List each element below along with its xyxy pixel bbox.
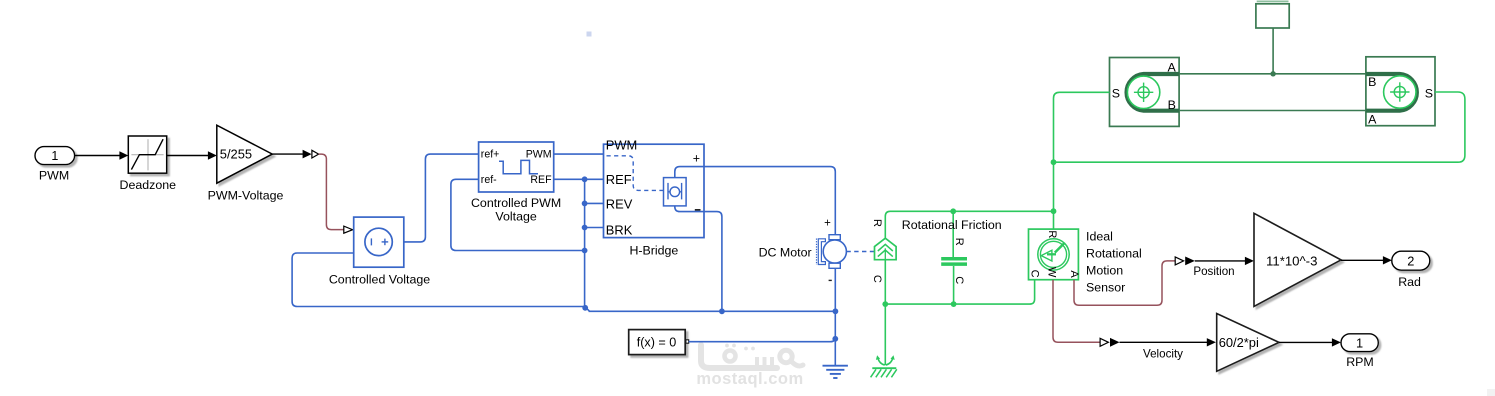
wire position signal to gain bbox=[1193, 257, 1254, 279]
belt pulley block right bbox=[1366, 57, 1435, 127]
svg-text:H-Bridge: H-Bridge bbox=[629, 244, 678, 258]
svg-text:PWM: PWM bbox=[606, 138, 638, 153]
wire gain to PS converter bbox=[272, 150, 318, 159]
svg-text:1: 1 bbox=[1356, 335, 1363, 350]
DC Motor block icon bbox=[759, 217, 847, 280]
svg-text:S: S bbox=[1425, 86, 1433, 100]
svg-text:BRK: BRK bbox=[606, 223, 633, 238]
svg-text:Velocity: Velocity bbox=[1143, 348, 1183, 361]
inport 1 PWM bbox=[35, 147, 75, 183]
wire PWM out to H-Bridge PWM bbox=[554, 153, 604, 155]
PS wire sensor A to position converter bbox=[1074, 261, 1175, 305]
artifact corner smudge bbox=[1487, 389, 1495, 396]
dashed wire motor R to shaft bbox=[846, 251, 874, 253]
wire REF out to H-Bridge REF bbox=[554, 178, 604, 180]
svg-text:REV: REV bbox=[606, 197, 633, 212]
svg-text:R: R bbox=[871, 219, 883, 227]
wire fx to ground node bbox=[689, 337, 836, 342]
svg-text:REF: REF bbox=[606, 172, 632, 187]
junction dots reference node bbox=[582, 176, 588, 310]
rotational friction element bbox=[902, 211, 1002, 304]
wire right pulley S return line bbox=[1054, 92, 1465, 162]
block Controlled Voltage source U1 bbox=[329, 217, 430, 287]
wire CV minus to bottom rail bbox=[292, 253, 583, 307]
electrical ground symbol bbox=[823, 366, 848, 378]
block Controlled PWM Voltage bbox=[471, 142, 561, 223]
svg-text:REF: REF bbox=[530, 174, 552, 186]
block Ideal Rotational Motion Sensor bbox=[1028, 229, 1141, 295]
wire motor minus down to rail and ground bbox=[834, 268, 836, 365]
junction dot belt top bbox=[1270, 71, 1275, 76]
svg-text:Deadzone: Deadzone bbox=[120, 178, 177, 192]
svg-text:mostaql.com: mostaql.com bbox=[696, 370, 803, 388]
block Solver Configuration f(x)=0 bbox=[629, 330, 689, 355]
velocity PS-Simulink converter bbox=[1100, 338, 1119, 347]
junction dot S node bbox=[1051, 159, 1057, 165]
junction dot rail at motor minus bbox=[833, 308, 839, 314]
wire gain to outport RPM bbox=[1279, 338, 1341, 346]
svg-text:C: C bbox=[871, 275, 883, 283]
svg-text:ref-: ref- bbox=[481, 174, 497, 186]
junction dot fx node bbox=[832, 336, 838, 342]
wire pulley S to sensor R bbox=[1053, 162, 1055, 229]
svg-text:PWM: PWM bbox=[526, 149, 552, 161]
junction dot green rail left bbox=[882, 301, 888, 307]
svg-text:11*10^-3: 11*10^-3 bbox=[1266, 254, 1317, 269]
junction dot sensor R bbox=[1051, 208, 1057, 214]
wire Deadzone to PWM-Voltage bbox=[167, 151, 217, 160]
svg-text:PWM: PWM bbox=[39, 169, 69, 183]
gain 11*10^-3 bbox=[1254, 213, 1341, 306]
wire ref- loop to reference node bbox=[451, 179, 585, 250]
svg-text:1: 1 bbox=[51, 149, 58, 163]
svg-text:W: W bbox=[1046, 267, 1058, 278]
svg-text:RPM: RPM bbox=[1346, 355, 1374, 369]
svg-text:R: R bbox=[953, 238, 965, 246]
svg-text:A: A bbox=[1068, 270, 1080, 278]
mechanical rotational reference ground bbox=[871, 355, 897, 377]
wire PWM to Deadzone bbox=[75, 151, 129, 160]
wire shaft C bottom green rail bbox=[885, 260, 1034, 366]
svg-text:Motion: Motion bbox=[1086, 264, 1123, 278]
wire velocity signal to gain bbox=[1120, 338, 1216, 361]
PS wire (physical signal) to Controlled Voltage input bbox=[319, 154, 353, 233]
svg-text:Controlled PWM: Controlled PWM bbox=[471, 196, 561, 210]
svg-text:S: S bbox=[1112, 86, 1120, 100]
svg-text:B: B bbox=[1368, 75, 1376, 89]
wire reference node vertical bbox=[585, 179, 604, 311]
svg-text:DC Motor: DC Motor bbox=[759, 246, 812, 260]
gain PWM-Voltage 5/255 bbox=[208, 125, 284, 202]
block H-Bridge bbox=[604, 138, 705, 258]
inertia block bbox=[1256, 1, 1289, 73]
svg-text:C: C bbox=[953, 276, 965, 284]
svg-text:PWM-Voltage: PWM-Voltage bbox=[208, 188, 284, 202]
svg-text:Position: Position bbox=[1193, 265, 1234, 278]
PS wire sensor W to velocity converter bbox=[1053, 280, 1100, 343]
svg-text:Voltage: Voltage bbox=[495, 209, 536, 223]
junction dot green rail friction C bbox=[951, 301, 957, 307]
block Deadzone bbox=[120, 136, 177, 192]
wire CV plus to ref+ bbox=[404, 154, 479, 242]
svg-text:Ideal: Ideal bbox=[1086, 230, 1113, 244]
svg-text:60/2*pi: 60/2*pi bbox=[1219, 335, 1259, 350]
svg-text:B: B bbox=[1168, 98, 1176, 112]
svg-text:Controlled Voltage: Controlled Voltage bbox=[329, 273, 430, 287]
svg-text:Sensor: Sensor bbox=[1086, 281, 1125, 295]
wire left pulley S down bbox=[1054, 92, 1110, 162]
junction dot rail at H-bridge minus bbox=[719, 308, 725, 314]
wire H-bridge minus to rail bbox=[704, 212, 722, 312]
svg-text:5/255: 5/255 bbox=[220, 147, 252, 162]
outport 1 RPM bbox=[1341, 334, 1378, 369]
svg-text:R: R bbox=[1046, 230, 1058, 238]
gain 60/2*pi bbox=[1217, 314, 1279, 372]
junction dot friction R bbox=[950, 208, 956, 214]
svg-text:C: C bbox=[1028, 270, 1040, 278]
wire bottom electrical rail bbox=[589, 310, 836, 312]
wire shaft R to friction and sensor bbox=[885, 211, 1053, 238]
svg-text:Rotational: Rotational bbox=[1086, 247, 1142, 261]
artifact small blue square bbox=[587, 32, 592, 37]
svg-text:f(x) = 0: f(x) = 0 bbox=[637, 335, 677, 349]
watermark mostaql logo bbox=[701, 344, 803, 368]
svg-text:A: A bbox=[1368, 113, 1377, 127]
svg-text:Rad: Rad bbox=[1398, 275, 1421, 289]
belt wire top bbox=[1179, 73, 1366, 75]
svg-text:Rotational Friction: Rotational Friction bbox=[902, 218, 1002, 232]
svg-text:A: A bbox=[1167, 60, 1176, 74]
belt wire bottom bbox=[1179, 110, 1366, 112]
belt pulley block left bbox=[1110, 58, 1180, 127]
svg-text:+: + bbox=[824, 217, 831, 229]
svg-text:ref+: ref+ bbox=[481, 149, 500, 161]
svg-text:+: + bbox=[693, 152, 700, 166]
motor shaft port pentagon bbox=[871, 219, 896, 283]
wire H-bridge plus to motor plus bbox=[704, 167, 835, 235]
position PS-Simulink converter bbox=[1175, 257, 1195, 266]
outport 2 Rad bbox=[1392, 251, 1430, 289]
svg-text:2: 2 bbox=[1407, 253, 1414, 268]
wire gain to outport Rad bbox=[1341, 256, 1392, 264]
